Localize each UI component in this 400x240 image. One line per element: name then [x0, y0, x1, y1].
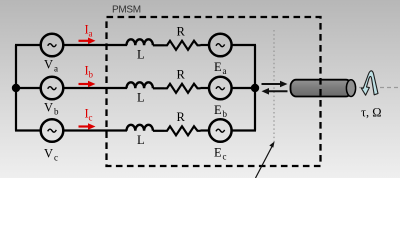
EMF source Ea [209, 34, 232, 57]
svg-text:c: c [54, 153, 58, 163]
wire phase b from bus to Vb [15, 87, 41, 89]
svg-text:E: E [214, 103, 222, 117]
svg-text:b: b [89, 70, 94, 80]
inductor L phase c [127, 125, 153, 131]
shaft axis dashed line [352, 87, 400, 89]
wire phase b from Vb into PMSM box [63, 87, 127, 89]
rotation arrow around shaft [361, 71, 378, 95]
resistor R phase c [164, 126, 201, 135]
wire right bus vertical [254, 45, 256, 131]
wire Ec to right bus [232, 129, 256, 131]
svg-text:a: a [223, 66, 227, 76]
node right bus junction [251, 84, 259, 92]
wire resistor to Ec [201, 129, 210, 131]
svg-text:c: c [223, 152, 227, 162]
current arrow Ia [79, 38, 96, 45]
svg-text:L: L [137, 48, 145, 62]
svg-text:V: V [44, 101, 53, 115]
svg-text:L: L [137, 133, 145, 147]
wire phase a from bus to Va [15, 44, 41, 46]
current arrow Ib [79, 81, 96, 88]
wire phase c from bus to Vc [15, 129, 41, 131]
EMF source Ec [209, 119, 232, 142]
svg-text:R: R [177, 110, 186, 124]
svg-text:V: V [44, 147, 53, 161]
svg-text:τ, Ω: τ, Ω [361, 106, 382, 120]
wire Eb to right bus [232, 87, 256, 89]
voltage source Vb [41, 77, 64, 100]
inductor L phase a [127, 39, 153, 45]
wire coil to resistor phase a [153, 44, 164, 46]
svg-text:b: b [54, 107, 59, 117]
wire coil to resistor phase b [153, 87, 164, 89]
wire coil to resistor phase c [153, 130, 164, 132]
voltage source Vc [41, 119, 64, 142]
current arrow Ic [79, 123, 96, 130]
node left bus junction [12, 84, 20, 92]
svg-text:c: c [89, 113, 93, 123]
power flow arrow electrical to mechanical [262, 81, 288, 88]
svg-text:a: a [89, 29, 93, 39]
svg-text:V: V [44, 58, 53, 72]
wire Ea to right bus [232, 44, 256, 46]
PMSM boundary dashed box [107, 17, 321, 166]
wire resistor to Ea [201, 44, 210, 46]
svg-text:PMSM: PMSM [112, 5, 141, 16]
shaft cylinder body [291, 80, 352, 97]
svg-text:E: E [214, 60, 222, 74]
wire phase c from Vc into PMSM box [63, 129, 127, 131]
svg-text:b: b [223, 109, 228, 119]
resistor R phase b [164, 84, 201, 93]
wire phase a from Va into PMSM box [63, 44, 127, 46]
wire left bus vertical [15, 45, 17, 131]
svg-text:L: L [137, 91, 145, 105]
svg-text:E: E [214, 146, 222, 160]
EMF source Eb [209, 77, 232, 100]
voltage source Va [41, 34, 64, 57]
svg-text:R: R [177, 68, 186, 82]
svg-text:a: a [54, 64, 58, 74]
inductor L phase b [127, 82, 153, 88]
wire resistor to Eb [201, 87, 210, 89]
rotor angle arrow [256, 141, 275, 178]
resistor R phase a [164, 41, 201, 50]
rotor position reference dotted line [273, 30, 275, 142]
power flow arrow mechanical to electrical [262, 88, 288, 95]
shaft cylinder end cap [346, 80, 355, 97]
svg-text:R: R [177, 25, 186, 39]
